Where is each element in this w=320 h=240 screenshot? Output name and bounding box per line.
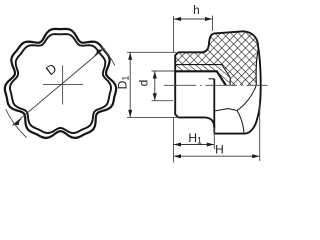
arrow h left bbox=[174, 17, 181, 21]
arrow d top bbox=[153, 71, 157, 78]
dimension line h bbox=[174, 18, 213, 20]
arrow H right bbox=[252, 154, 259, 158]
bore top edge with conical end bbox=[174, 71, 226, 85]
horizontal centerline (axis) bbox=[164, 84, 268, 86]
knob inner contour bbox=[10, 34, 111, 133]
dimension line H bbox=[174, 155, 260, 157]
vertical centerline bbox=[62, 66, 64, 105]
cross-hatched plastic body (flange band + head) bbox=[175, 31, 258, 85]
knob outer contour bbox=[5, 29, 116, 138]
arrow d bottom bbox=[153, 93, 157, 100]
flange top edge bbox=[178, 51, 203, 53]
diameter D dimension line (diagonal) bbox=[13, 48, 105, 125]
extension line right for H1 (head face) bbox=[213, 128, 215, 149]
head left face bbox=[213, 79, 215, 134]
arrow H left bbox=[174, 154, 181, 158]
extension line bottom for d (bore bottom) bbox=[152, 100, 174, 102]
tip-circle arc at lower-left bbox=[6, 109, 27, 138]
extension line left (hub face, for h/H1/H) bbox=[173, 16, 175, 52]
arrow at upper-right end of D line bbox=[94, 50, 102, 56]
arrow D1 top bbox=[128, 53, 132, 60]
hub left face with chamfers bbox=[175, 52, 178, 117]
extension line right for h (head face) bbox=[212, 16, 214, 32]
tip-circle arc at upper-right bbox=[101, 46, 115, 65]
extension line top for D1 (collar top) bbox=[127, 51, 176, 53]
svg-text:d: d bbox=[137, 80, 151, 87]
svg-text:H: H bbox=[215, 142, 224, 156]
section cut boundary at right bbox=[256, 49, 258, 85]
insert top edge bbox=[175, 65, 230, 86]
arrow H1 right bbox=[207, 143, 214, 147]
extension line bottom for D1 (collar bottom) bbox=[127, 116, 178, 118]
extension line left lower (hub face, for H1/H) bbox=[173, 118, 175, 163]
head outline bbox=[202, 31, 261, 133]
recess step edge around bore bbox=[209, 78, 215, 80]
single-hatched metal insert (band + flared end) bbox=[175, 64, 230, 85]
valley contour (below axis) bbox=[214, 109, 237, 111]
arrow H1 left bbox=[174, 143, 181, 147]
arrow h right bbox=[205, 17, 212, 21]
dimension line H1 bbox=[174, 144, 215, 146]
dimension line D1 bbox=[129, 52, 131, 117]
extension line top for d (bore top) bbox=[152, 70, 176, 72]
svg-text:h: h bbox=[193, 5, 199, 17]
arrow D1 bottom bbox=[128, 110, 132, 117]
extension line right for H (knob back) bbox=[259, 102, 261, 161]
hub bottom edge with fillet into head face bbox=[178, 117, 214, 127]
dimension line d bbox=[154, 71, 156, 101]
horizontal centerline bbox=[43, 83, 83, 85]
lobe flank lower branch bbox=[237, 111, 244, 134]
lobe flank upper branch bbox=[237, 86, 256, 111]
arrow at lower-left end of D line bbox=[13, 119, 21, 125]
